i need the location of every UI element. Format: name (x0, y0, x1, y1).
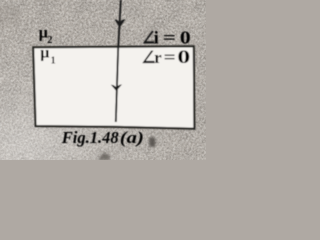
svg-text:Fig.: Fig. (61, 128, 90, 147)
smudge near bottom-right of box (149, 137, 156, 147)
svg-text:i: i (154, 27, 159, 47)
stray mark below caption (98, 153, 111, 161)
svg-text:1.48: 1.48 (90, 128, 119, 147)
svg-text:(a): (a) (120, 129, 144, 148)
incident ray (above box) (118, 0, 121, 47)
svg-text:μ: μ (40, 45, 49, 62)
paper background (0, 0, 206, 160)
svg-text:0: 0 (177, 46, 190, 67)
svg-text:0: 0 (180, 28, 191, 48)
svg-text:1: 1 (51, 55, 56, 66)
svg-text:=: = (164, 47, 176, 67)
darker patch top-left (0, 5, 21, 27)
svg-text:=: = (163, 29, 176, 48)
glass slab box (scanned quad, slightly skewed) (33, 46, 194, 128)
label angle i = 0 (143, 27, 191, 48)
svg-text:r: r (154, 48, 161, 67)
arrowhead incident (114, 19, 125, 27)
arrowhead refracted (111, 84, 122, 91)
label angle r = 0 (142, 46, 190, 67)
refracted ray (inside box) (116, 47, 118, 122)
